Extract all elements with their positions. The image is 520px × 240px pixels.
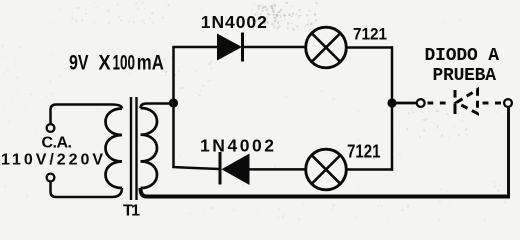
svg-text:100: 100 [113, 51, 136, 75]
wire: bottom branch from riser to diode [172, 167, 220, 169]
wire: left vertical riser (node to top rail and down to bottom branch) [172, 47, 175, 168]
wire: right return drop [507, 107, 510, 196]
svg-text:PRUEBA: PRUEBA [433, 66, 497, 86]
transformer T1 secondary winding [141, 108, 158, 188]
diode D2 1N4002 (bottom, pointing left) [219, 152, 222, 185]
svg-text:mA: mA [137, 51, 164, 75]
svg-text:T1: T1 [123, 203, 140, 220]
wire: junction to test terminal [392, 102, 416, 105]
svg-text:9V: 9V [69, 51, 89, 75]
wire: secondary top lead to node [141, 104, 174, 109]
terminal: AC input upper [47, 124, 55, 132]
transformer T1 primary winding [106, 109, 123, 189]
wire: dashed lead from test diode [483, 102, 504, 105]
wire: primary top lead from C.A. terminal to transformer [51, 105, 123, 124]
svg-text:1N4002: 1N4002 [201, 12, 267, 32]
wire: primary bottom lead from C.A. terminal to transformer [51, 182, 123, 197]
wire: right vertical riser [391, 46, 394, 170]
terminal: AC input lower [47, 174, 55, 182]
svg-text:X: X [99, 51, 112, 75]
svg-text:7121: 7121 [347, 142, 381, 162]
wire: top rail to diode [172, 46, 218, 49]
terminal: test lead left [417, 99, 425, 107]
svg-text:C.A.: C.A. [42, 135, 73, 152]
wire: dashed lead to test diode [428, 102, 450, 105]
node: secondary top junction [169, 98, 178, 107]
transformer T1 core [130, 97, 132, 200]
svg-text:DIODO A: DIODO A [425, 46, 500, 66]
wire: diode to lamp (bottom) [250, 168, 307, 171]
wire: lamp to right riser (bottom) [346, 168, 393, 171]
node: output junction [387, 98, 396, 107]
wire: lamp to right riser (top) [346, 46, 393, 49]
svg-text:7121: 7121 [353, 25, 387, 44]
diode D1 1N4002 (top, pointing right) [217, 34, 242, 61]
lamp 7121 top [306, 27, 347, 68]
lamp 7121 bottom [306, 149, 347, 190]
terminal: test lead right [504, 99, 512, 107]
wire: bottom return rail [141, 188, 511, 197]
wire: diode to lamp (top) [243, 46, 307, 49]
svg-text:110V/220V: 110V/220V [1, 152, 103, 169]
diode under test (dashed symbol, pointing left) [455, 90, 478, 115]
